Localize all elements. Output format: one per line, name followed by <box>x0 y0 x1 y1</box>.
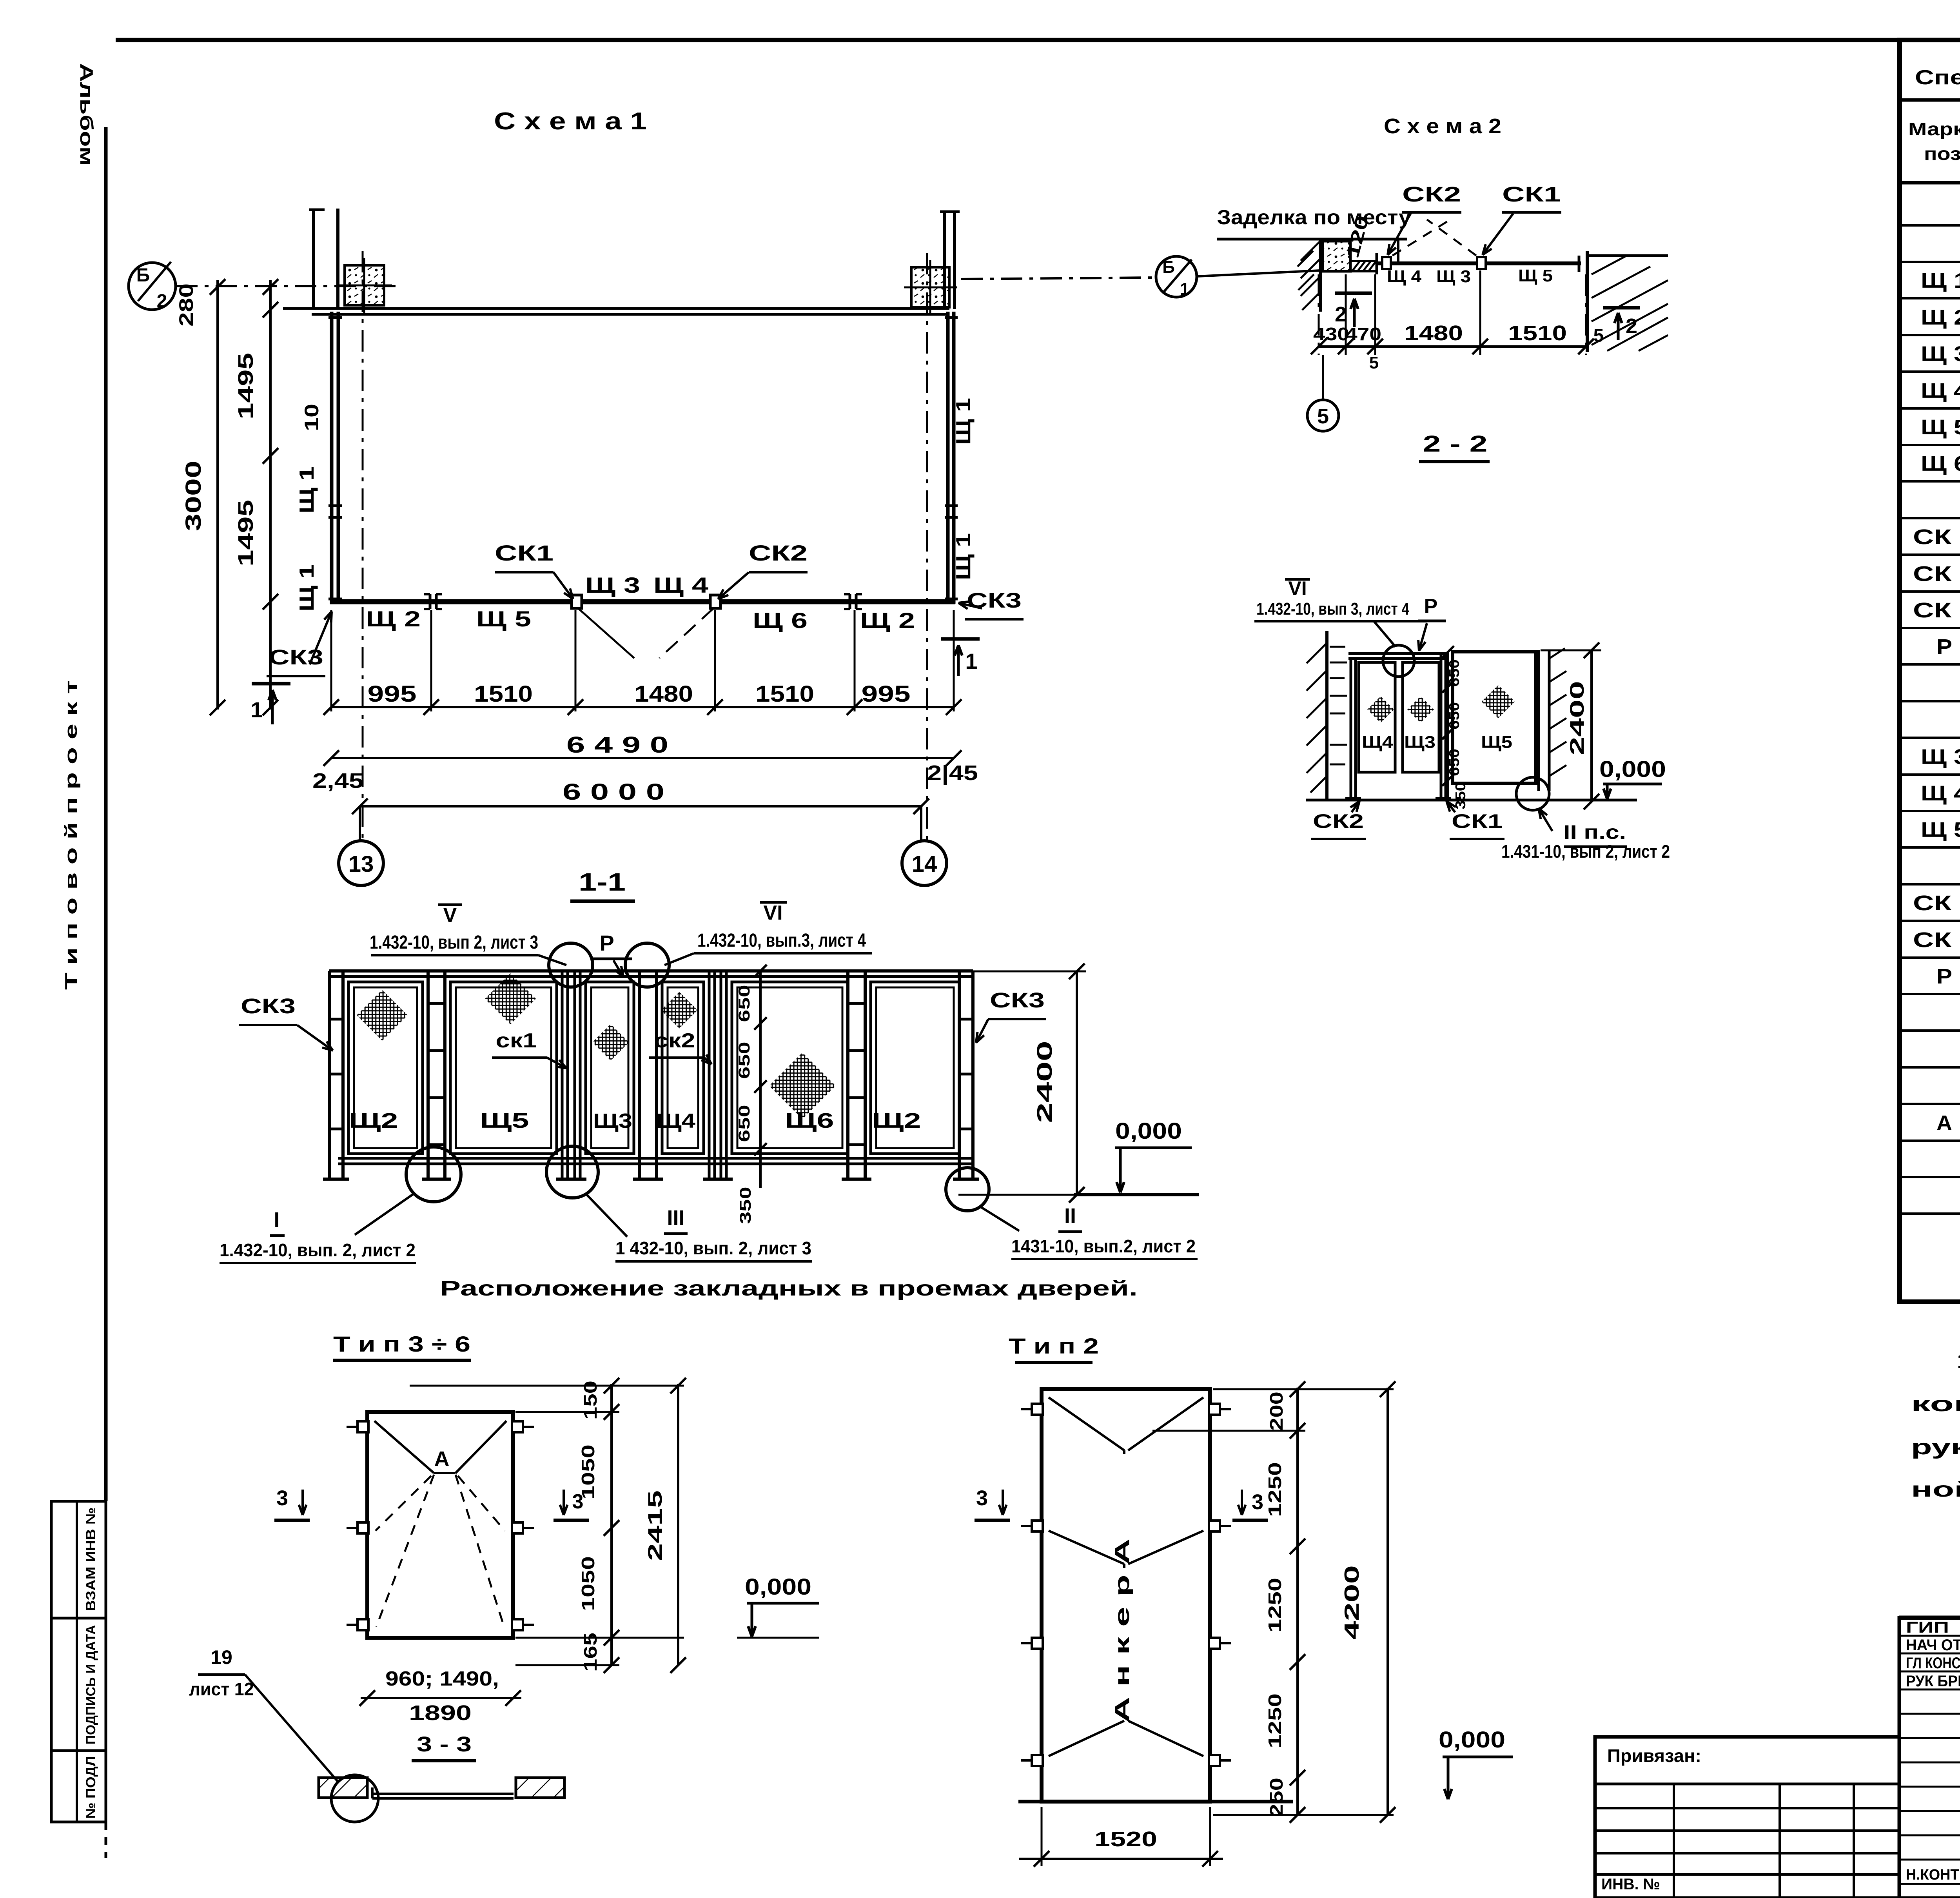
double post a 1-1 <box>426 971 430 1179</box>
witness lines for dims scheme1 <box>330 610 332 711</box>
witness top type2 <box>1213 1388 1394 1390</box>
right pilaster <box>943 210 946 309</box>
svg-text:Щ 3: Щ 3 <box>1921 342 1960 366</box>
svg-text:СК 2: СК 2 <box>1913 928 1960 952</box>
svg-text:3: 3 <box>276 1486 288 1510</box>
svg-text:6 0 0 0: 6 0 0 0 <box>563 779 664 805</box>
svg-text:2415: 2415 <box>644 1490 666 1561</box>
svg-text:Щ6: Щ6 <box>785 1109 834 1132</box>
svg-text:II: II <box>1064 1204 1076 1228</box>
svg-text:Щ 2: Щ 2 <box>366 606 421 631</box>
section mark 2 left <box>1335 292 1372 295</box>
svg-text:Щ 4: Щ 4 <box>653 573 708 597</box>
section mark 2 right <box>1603 306 1640 310</box>
svg-text:Щ 3: Щ 3 <box>1436 267 1471 286</box>
svg-text:2400: 2400 <box>1033 1041 1056 1123</box>
svg-text:III: III <box>667 1206 684 1230</box>
svg-text:Щ 5: Щ 5 <box>476 606 531 631</box>
circle 5 axis <box>1322 355 1324 401</box>
svg-text:А: А <box>1936 1111 1952 1135</box>
svg-text:1-1: 1-1 <box>579 868 626 896</box>
right wall scheme2 <box>1586 251 1589 352</box>
svg-text:С х е м а 2: С х е м а 2 <box>1384 114 1501 138</box>
svg-text:СК3: СК3 <box>967 589 1022 612</box>
svg-text:995: 995 <box>368 681 417 707</box>
anchor lugs type2 <box>1032 1404 1043 1415</box>
svg-text:СК 1: СК 1 <box>1913 525 1960 549</box>
svg-text:Щ4: Щ4 <box>1362 733 1394 752</box>
svg-text:ск2: ск2 <box>654 1029 695 1052</box>
svg-text:Щ5: Щ5 <box>480 1109 529 1132</box>
signature table <box>1899 1618 1960 1898</box>
post СК2 1-1 <box>708 971 711 1179</box>
joint bracket 1 <box>429 594 432 609</box>
svg-text:1520: 1520 <box>1094 1827 1157 1851</box>
svg-text:Н.КОНТР: Н.КОНТР <box>1906 1867 1960 1883</box>
svg-text:Щ 4: Щ 4 <box>1387 267 1422 286</box>
wall line scheme2 left <box>1319 239 1322 312</box>
svg-text:5: 5 <box>1593 325 1604 346</box>
detail circle II bottom <box>946 1168 989 1211</box>
svg-text:Щ4: Щ4 <box>656 1110 695 1132</box>
svg-text:1510: 1510 <box>1508 321 1567 345</box>
mesh Щ4 2-2 <box>1367 696 1394 723</box>
section mark 3 right <box>563 1490 565 1515</box>
partition line scheme2 <box>1377 261 1581 265</box>
svg-text:1510: 1510 <box>474 681 533 707</box>
svg-text:1.431-10, вып 2, лист 2: 1.431-10, вып 2, лист 2 <box>1501 841 1670 862</box>
svg-text:НАЧ ОТД.: НАЧ ОТД. <box>1906 1637 1960 1654</box>
svg-text:1 432-10, вып. 2, лист 3: 1 432-10, вып. 2, лист 3 <box>615 1238 811 1258</box>
svg-text:1495: 1495 <box>234 500 258 566</box>
svg-text:Т и п 3 ÷ 6: Т и п 3 ÷ 6 <box>333 1332 470 1356</box>
svg-text:1: 1 <box>1180 279 1189 299</box>
svg-text:Б: Б <box>136 265 150 286</box>
section mark 1 left <box>252 682 290 686</box>
svg-text:0,000: 0,000 <box>1115 1118 1182 1144</box>
svg-text:13: 13 <box>348 851 374 877</box>
svg-text:Марка,: Марка, <box>1908 119 1960 139</box>
double post b 1-1 <box>846 971 849 1179</box>
mesh Щ4 <box>661 992 697 1028</box>
svg-text:Привязан:: Привязан: <box>1607 1746 1701 1766</box>
sheet frame top border <box>116 38 1960 42</box>
svg-text:1250: 1250 <box>1265 1693 1285 1748</box>
dim 2415 <box>677 1384 679 1666</box>
svg-text:Щ2: Щ2 <box>349 1109 398 1132</box>
section 3-3 left plate <box>319 1778 367 1798</box>
svg-text:руководствоваться матери: руководствоваться материалами пояснитель… <box>1911 1435 1960 1459</box>
post square СК1 in plan <box>572 595 582 608</box>
svg-text:10: 10 <box>301 404 323 431</box>
left pilaster <box>312 209 315 309</box>
dim line 6000 <box>360 805 921 807</box>
svg-text:6 4 9 0: 6 4 9 0 <box>566 732 668 758</box>
svg-text:А: А <box>434 1447 450 1471</box>
bottom rail 1-1 <box>338 1157 973 1160</box>
anchor rect type2 <box>1042 1389 1210 1802</box>
panel Щ5 frame 1-1 <box>450 982 557 1154</box>
detail circle III bottom <box>546 1146 598 1198</box>
dim line 6490 <box>331 757 954 759</box>
section mark 3 right type2 <box>1241 1490 1243 1515</box>
svg-text:4200: 4200 <box>1341 1565 1363 1640</box>
svg-text:Щ 3: Щ 3 <box>1921 745 1960 769</box>
svg-text:1.432-10, вып 3, лист 4: 1.432-10, вып 3, лист 4 <box>1256 599 1409 619</box>
svg-text:1.432-10, вып.3, лист 4: 1.432-10, вып.3, лист 4 <box>697 930 866 951</box>
dim 2400 2-2 <box>1590 650 1593 802</box>
anchor rect type3-6 <box>367 1412 513 1638</box>
ledger hatched <box>1350 261 1377 271</box>
svg-text:Щ 1: Щ 1 <box>952 533 975 580</box>
svg-text:19: 19 <box>211 1646 232 1668</box>
svg-text:1050: 1050 <box>578 1556 598 1611</box>
spec table header row line <box>1900 181 1960 185</box>
svg-text:Т и п о в о й п р о е к т: Т и п о в о й п р о е к т <box>62 680 81 990</box>
svg-text:1495: 1495 <box>234 353 258 419</box>
svg-text:5: 5 <box>1369 353 1379 372</box>
section mark 1 right <box>941 637 980 641</box>
svg-text:2: 2 <box>1626 314 1637 338</box>
svg-text:ПОДПИСЬ И ДАТА: ПОДПИСЬ И ДАТА <box>83 1625 98 1745</box>
post СК3 right 1-1 <box>958 971 961 1179</box>
dim line scheme2 <box>1319 345 1586 348</box>
svg-text:СК2: СК2 <box>1402 183 1461 206</box>
svg-text:2: 2 <box>157 291 167 312</box>
dashed V leaders scheme2 <box>1392 220 1450 256</box>
svg-text:1. При монтаже стально: 1. При монтаже стальной щитовой сетчатой <box>1956 1349 1960 1373</box>
svg-text:С х е м а 1: С х е м а 1 <box>494 108 647 135</box>
panel Щ3 frame 1-1 <box>586 982 634 1154</box>
dim ladder type2 <box>1296 1388 1299 1816</box>
panel Щ2b frame 1-1 <box>871 982 959 1154</box>
axis line right Б/1 <box>961 278 1156 279</box>
post square СК2 scheme2 <box>1382 257 1391 269</box>
axis circle Б/1 <box>1156 256 1197 297</box>
partition panel Щ1 right (vertical) <box>946 312 950 604</box>
mesh Щ5 <box>485 973 536 1024</box>
svg-text:ВЗАМ ИНВ №: ВЗАМ ИНВ № <box>83 1508 98 1611</box>
axis dashdot right vertical <box>926 253 928 840</box>
svg-text:Т и п 2: Т и п 2 <box>1009 1334 1099 1358</box>
svg-text:ГЛ КОНСТР: ГЛ КОНСТР <box>1906 1655 1960 1672</box>
post СК1 2-2 to floor <box>1440 652 1443 799</box>
svg-text:1250: 1250 <box>1265 1578 1285 1633</box>
svg-text:ИНВ. №: ИНВ. № <box>1601 1876 1660 1893</box>
mesh Щ5 2-2 <box>1482 685 1515 719</box>
svg-text:1.432-10, вып 2, лист 3: 1.432-10, вып 2, лист 3 <box>370 932 538 953</box>
svg-text:960; 1490,: 960; 1490, <box>385 1668 499 1690</box>
ladder dim 650 2-2 <box>1447 652 1449 800</box>
svg-text:Р: Р <box>1424 595 1438 618</box>
svg-text:Щ 2: Щ 2 <box>860 608 915 633</box>
post square СК2 in plan <box>710 595 720 608</box>
svg-text:Щ 5: Щ 5 <box>1921 416 1960 439</box>
svg-text:Щ 1: Щ 1 <box>296 466 318 514</box>
svg-text:Б: Б <box>1162 258 1175 277</box>
post square СК1 scheme2 <box>1477 257 1486 269</box>
svg-text:470: 470 <box>1345 324 1381 344</box>
svg-text:650: 650 <box>736 1042 753 1079</box>
floor 2-2 <box>1306 799 1637 802</box>
svg-text:1: 1 <box>250 697 263 722</box>
svg-text:СК 2: СК 2 <box>1913 562 1960 586</box>
wall face strokes 2-2 <box>1330 647 1347 764</box>
top rail 2-2 <box>1348 652 1447 655</box>
svg-text:V: V <box>443 904 457 927</box>
svg-text:I: I <box>274 1208 279 1232</box>
panel Щ4 frame 1-1 <box>662 982 704 1154</box>
svg-text:2,45: 2,45 <box>312 769 363 793</box>
svg-text:5: 5 <box>1317 405 1329 428</box>
svg-text:430: 430 <box>1313 324 1349 344</box>
svg-text:консольной перегородки: консольной перегородки по схемам 1 и 2 <box>1911 1392 1960 1416</box>
svg-text:Щ3: Щ3 <box>593 1110 632 1132</box>
section 3-3 right plate <box>516 1778 564 1798</box>
partition bottom row heavy line <box>330 599 955 604</box>
svg-text:поз.: поз. <box>1924 143 1960 164</box>
panel Щ4 2-2 <box>1359 662 1395 772</box>
joint post 1-1 <box>638 971 641 1179</box>
svg-text:лист 12: лист 12 <box>189 1679 254 1699</box>
axis line to scheme 2 wall <box>1197 270 1320 276</box>
mesh Щ3 2-2 <box>1407 696 1434 723</box>
svg-text:РУК БРИГ: РУК БРИГ <box>1906 1673 1960 1690</box>
detail circle VI 2-2 <box>1383 645 1414 677</box>
svg-text:Спецификация к схемам распол: Спецификация к схемам расположения элеме… <box>1915 66 1960 89</box>
svg-text:1250: 1250 <box>1265 1462 1285 1517</box>
svg-text:650: 650 <box>736 985 753 1022</box>
svg-text:Щ 1: Щ 1 <box>1921 269 1960 292</box>
svg-text:VI: VI <box>763 902 782 924</box>
post СК2 2-2 to floor <box>1350 659 1352 799</box>
svg-text:2|45: 2|45 <box>927 761 978 785</box>
right wall 2-2 <box>1537 650 1540 791</box>
svg-text:II п.с.: II п.с. <box>1563 821 1626 843</box>
column block scheme2 <box>1323 241 1350 271</box>
svg-text:650: 650 <box>736 1105 753 1142</box>
detail circle 3-3 <box>331 1775 378 1822</box>
svg-text:3 - 3: 3 - 3 <box>417 1733 472 1756</box>
spec table bottom border <box>1900 1300 1960 1304</box>
svg-text:14: 14 <box>912 851 937 877</box>
spec table heading underline <box>1900 98 1960 102</box>
right column block hatched <box>911 267 949 307</box>
left dim line 3000 <box>216 280 219 709</box>
left column block hatched <box>345 265 384 305</box>
floor line type2 <box>1018 1800 1293 1804</box>
leader lines from posts down <box>578 608 634 658</box>
axis dashdot left vertical <box>362 251 364 840</box>
left dim line 1495s <box>269 280 272 709</box>
svg-text:СК1: СК1 <box>1452 810 1503 832</box>
dim 4200 <box>1387 1388 1389 1816</box>
svg-text:СК2: СК2 <box>749 541 808 565</box>
dim line 995-1510-1480-1510-995 <box>331 706 954 708</box>
axis circle Б/2 <box>129 263 176 310</box>
mesh Щ2 <box>357 990 408 1041</box>
panel Щ2 frame 1-1 <box>348 982 423 1154</box>
detail circle VI on post <box>625 943 669 987</box>
top rail 1-1 <box>329 969 973 973</box>
svg-text:Щ 2: Щ 2 <box>1921 306 1960 329</box>
anchor lugs type3-6 <box>358 1421 368 1432</box>
witness lines scheme2 <box>1318 274 1320 355</box>
ladder dim 650x3 1-1 <box>759 971 762 1188</box>
column circle 14 <box>920 806 922 841</box>
anchor chevrons type2 <box>1049 1397 1124 1450</box>
svg-text:250: 250 <box>1266 1778 1287 1817</box>
post СК3 left 1-1 <box>328 971 331 1179</box>
mesh Щ3 <box>592 1024 629 1060</box>
svg-text:0,000: 0,000 <box>1439 1727 1505 1753</box>
svg-text:2 - 2: 2 - 2 <box>1423 431 1488 457</box>
svg-text:ной записки серии: ной записки серии 1. 431 - 10 вып. 2. <box>1911 1478 1960 1501</box>
svg-text:СК 1: СК 1 <box>1913 891 1960 915</box>
column circle 13 <box>359 806 361 841</box>
svg-text:1480: 1480 <box>634 681 693 707</box>
svg-text:Щ 6: Щ 6 <box>1921 452 1960 475</box>
svg-text:1431-10, вып.2, лист 2: 1431-10, вып.2, лист 2 <box>1011 1236 1196 1256</box>
svg-text:995: 995 <box>862 681 911 707</box>
svg-text:Щ 6: Щ 6 <box>753 608 808 633</box>
svg-text:Щ 1: Щ 1 <box>296 564 318 611</box>
panel Щ6 frame 1-1 <box>732 982 848 1154</box>
svg-text:200: 200 <box>1266 1392 1287 1431</box>
svg-text:Расположение закладных в: Расположение закладных в проемах дверей. <box>440 1277 1138 1300</box>
end bracket scheme2 <box>1578 256 1581 272</box>
svg-text:СК 3: СК 3 <box>1913 599 1960 622</box>
privyazan box <box>1595 1737 1899 1898</box>
svg-text:Заделка по месту: Заделка по месту <box>1217 206 1411 229</box>
post СК1 1-1 <box>561 971 564 1179</box>
svg-text:Щ2: Щ2 <box>872 1109 921 1132</box>
svg-text:1050: 1050 <box>578 1444 598 1499</box>
svg-text:Р: Р <box>1936 635 1952 659</box>
svg-text:Р: Р <box>1936 965 1952 988</box>
svg-text:Щ 4: Щ 4 <box>1921 379 1960 403</box>
svg-text:Щ 5: Щ 5 <box>1518 266 1553 285</box>
svg-text:А н к е р А: А н к е р А <box>1111 1539 1134 1723</box>
wall hatch scheme2 left <box>1298 241 1320 310</box>
anchor diagonals type3-6 <box>374 1421 434 1473</box>
svg-text:0,000: 0,000 <box>745 1574 811 1600</box>
joint bracket 2 <box>849 594 851 609</box>
svg-text:СК1: СК1 <box>1502 183 1561 206</box>
svg-text:СК3: СК3 <box>241 994 296 1018</box>
dim ladder type3-6 <box>610 1384 613 1666</box>
svg-text:Р: Р <box>599 931 614 955</box>
detail circle V on post <box>549 943 593 987</box>
svg-text:Щ3: Щ3 <box>1404 733 1436 752</box>
panel Щ5 2-2 <box>1453 652 1536 783</box>
partition panel Щ1 left (vertical) <box>330 312 334 604</box>
svg-text:№ ПОДЛ: № ПОДЛ <box>83 1756 98 1819</box>
left stamp box column <box>51 1501 106 1822</box>
svg-text:СК1: СК1 <box>495 541 554 565</box>
svg-text:Щ 3: Щ 3 <box>585 573 640 597</box>
svg-text:1480: 1480 <box>1404 321 1463 345</box>
spec table outer border <box>1900 40 1960 1302</box>
svg-text:СК3: СК3 <box>990 989 1045 1012</box>
detail circle П 2-2 <box>1516 777 1549 810</box>
wall 2-2 <box>1325 631 1328 800</box>
dim 2400 1-1 <box>1076 971 1078 1195</box>
mesh Щ6 <box>769 1052 836 1119</box>
svg-text:350: 350 <box>737 1187 754 1224</box>
detail circle I bottom <box>406 1147 461 1202</box>
svg-text:1: 1 <box>965 649 977 673</box>
section 3-3 bar <box>372 1793 514 1795</box>
svg-text:0,000: 0,000 <box>1599 757 1666 782</box>
svg-text:280: 280 <box>175 283 197 327</box>
svg-text:Щ 1: Щ 1 <box>952 398 975 445</box>
axis line left <box>176 285 396 287</box>
svg-text:Щ5: Щ5 <box>1481 733 1512 752</box>
floor line 1-1 <box>1074 1193 1199 1196</box>
svg-text:Альбом: Альбом <box>76 63 97 166</box>
title block top border <box>1899 1616 1960 1620</box>
svg-text:3000: 3000 <box>181 461 205 531</box>
svg-text:1890: 1890 <box>409 1701 472 1725</box>
svg-text:Щ 5: Щ 5 <box>1921 818 1960 842</box>
svg-text:1510: 1510 <box>755 681 814 707</box>
sheet frame left border <box>104 127 108 1501</box>
svg-text:ГИП: ГИП <box>1906 1619 1949 1636</box>
panel Щ3 2-2 <box>1403 662 1439 772</box>
svg-text:1.432-10, вып. 2, лист 2: 1.432-10, вып. 2, лист 2 <box>220 1240 416 1260</box>
svg-text:ск1: ск1 <box>496 1029 537 1052</box>
svg-text:3: 3 <box>976 1486 988 1510</box>
svg-text:Щ 4: Щ 4 <box>1921 782 1960 805</box>
svg-text:2400: 2400 <box>1566 681 1588 755</box>
svg-text:3: 3 <box>1252 1490 1263 1514</box>
top wall double line <box>283 307 949 310</box>
witness top type3-6 <box>410 1385 684 1387</box>
svg-text:СК2: СК2 <box>1313 810 1364 832</box>
